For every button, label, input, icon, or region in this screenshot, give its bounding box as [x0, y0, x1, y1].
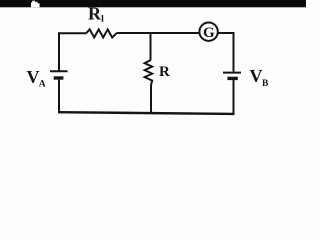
battery VB short thick plate: [227, 77, 237, 80]
resistor R1 zigzag: [86, 29, 117, 37]
battery VA short thick plate: [54, 76, 64, 79]
svg-text:R: R: [159, 64, 170, 80]
middle vertical wire upper: [150, 32, 152, 60]
right vertical wire upper: [233, 32, 235, 72]
resistor R zigzag (vertical): [145, 60, 153, 85]
left vertical wire lower: [58, 80, 60, 113]
svg-text:G: G: [203, 25, 215, 41]
bottom wire: [58, 112, 235, 114]
middle vertical wire lower: [150, 85, 152, 113]
wire between R1 and galvanometer: [117, 32, 200, 34]
wire top-left segment: [58, 32, 86, 34]
white notch in band: [31, 1, 40, 8]
wire galvanometer to top-right corner: [218, 32, 234, 34]
svg-text:1: 1: [100, 14, 105, 24]
svg-text:B: B: [262, 79, 269, 89]
galvanometer G: [199, 23, 217, 41]
top black scan band: [0, 0, 306, 7]
svg-text:V: V: [250, 66, 263, 86]
left vertical wire upper: [58, 32, 60, 70]
right vertical wire lower: [233, 80, 235, 114]
svg-text:A: A: [39, 80, 46, 90]
battery VB long plate: [223, 72, 241, 74]
svg-text:V: V: [27, 67, 40, 87]
battery VA long plate: [50, 70, 68, 72]
